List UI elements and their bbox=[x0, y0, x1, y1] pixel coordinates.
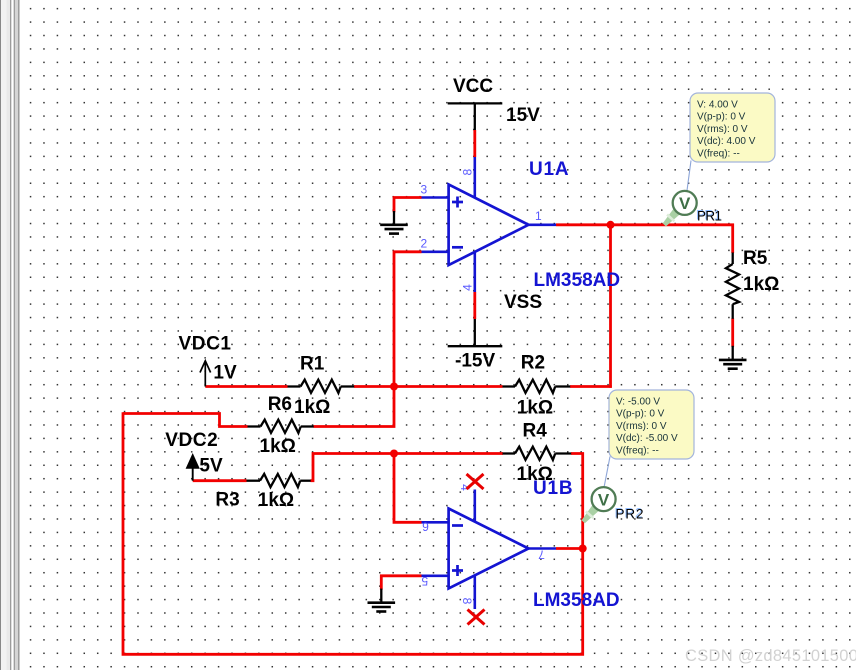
svg-text:1kΩ: 1kΩ bbox=[258, 490, 294, 511]
svg-text:1V: 1V bbox=[213, 363, 237, 384]
svg-text:R1: R1 bbox=[300, 353, 325, 374]
left window edge / scrollbar strip bbox=[0, 0, 19, 670]
node OUT1 junction dot bbox=[607, 221, 615, 229]
wire: U1A pin3 to ground bbox=[394, 198, 422, 213]
svg-text:1kΩ: 1kΩ bbox=[743, 274, 779, 295]
svg-text:4: 4 bbox=[461, 284, 475, 291]
U1B pin 4 stub with X bbox=[458, 474, 484, 522]
U1A pin 1 stub bbox=[529, 209, 557, 225]
U1B pin 6 stub bbox=[422, 520, 449, 534]
resistor R2 bbox=[503, 353, 571, 419]
svg-text:1kΩ: 1kΩ bbox=[260, 436, 296, 457]
probe PR1 leader line bbox=[687, 161, 691, 191]
svg-text:PR1: PR1 bbox=[697, 209, 722, 224]
watermark bbox=[685, 647, 856, 665]
ground (U1B pin5) bbox=[368, 589, 396, 612]
wire: U1A pin2 down to node A bbox=[394, 252, 422, 387]
node B junction dot bbox=[390, 450, 398, 458]
svg-text:1kΩ: 1kΩ bbox=[294, 397, 330, 418]
wire: R5 bottom lead to ground bbox=[731, 318, 734, 347]
probe PR1 bbox=[663, 191, 722, 227]
wire: U1A output pin1 to R5 top bbox=[556, 223, 734, 226]
wire: node B down to U1B pin6 bbox=[394, 452, 422, 522]
U1B pin 5 stub bbox=[421, 574, 448, 588]
source VDC2 5V arrow bbox=[165, 430, 223, 481]
svg-text:3: 3 bbox=[421, 182, 428, 196]
svg-text:V: V bbox=[598, 490, 610, 509]
ground (R5) bbox=[719, 346, 747, 369]
wire: VDC2 to R3 left lead bbox=[193, 479, 247, 482]
wire: R6 left lead to loop top step bbox=[123, 414, 248, 427]
svg-text:LM358AD: LM358AD bbox=[534, 270, 621, 291]
svg-text:VDC2: VDC2 bbox=[165, 430, 218, 451]
source VDC1 1V arrow bbox=[179, 334, 237, 387]
wire: VSS to U1A pin4 bbox=[473, 292, 476, 319]
svg-text:R3: R3 bbox=[215, 490, 239, 511]
wire: big loop left and bottom bbox=[123, 412, 583, 654]
svg-text:V: 4.00 V: V: 4.00 V bbox=[697, 99, 738, 110]
svg-text:V(p-p): 0 V: V(p-p): 0 V bbox=[616, 409, 665, 420]
wire: U1B output pin7 to node C bbox=[556, 547, 584, 550]
svg-text:8: 8 bbox=[460, 598, 474, 605]
wire: R5 top lead bbox=[731, 224, 734, 254]
svg-text:LM358AD: LM358AD bbox=[533, 590, 620, 611]
resistor R6 bbox=[248, 394, 314, 457]
op-amp U1B triangle bbox=[449, 478, 620, 611]
resistor R4 bbox=[503, 421, 572, 486]
svg-text:8: 8 bbox=[461, 169, 475, 176]
resistor R5 bbox=[726, 248, 779, 319]
svg-text:VCC: VCC bbox=[453, 76, 493, 97]
svg-text:5V: 5V bbox=[199, 456, 223, 477]
wire: VDC1 to R1 left lead bbox=[205, 385, 287, 388]
wire: feedback riser x=610.5 bbox=[609, 224, 612, 388]
svg-text:V(rms): 0 V: V(rms): 0 V bbox=[697, 124, 748, 135]
wire: node A down to R6 right lead bbox=[314, 385, 395, 427]
svg-text:V(dc): 4.00 V: V(dc): 4.00 V bbox=[697, 136, 756, 147]
svg-text:-15V: -15V bbox=[455, 351, 495, 372]
svg-text:V(freq): --: V(freq): -- bbox=[616, 446, 659, 457]
svg-text:V: -5.00 V: V: -5.00 V bbox=[616, 396, 660, 407]
probe PR2 leader line bbox=[604, 457, 610, 488]
svg-text:U1A: U1A bbox=[529, 159, 569, 180]
resistor R3 bbox=[215, 474, 310, 511]
svg-text:CSDN @zd845101500: CSDN @zd845101500 bbox=[685, 647, 856, 665]
power symbol VSS bbox=[448, 292, 542, 372]
tooltip PR1 bbox=[690, 93, 775, 162]
U1A pin 3 stub bbox=[421, 182, 449, 197]
wire: VCC to U1A pin8 bbox=[473, 130, 476, 157]
resistor R1 bbox=[288, 353, 355, 417]
svg-text:V(rms): 0 V: V(rms): 0 V bbox=[616, 421, 667, 432]
svg-text:6: 6 bbox=[422, 520, 429, 534]
wire: R4 right lead down to U1B output node bbox=[571, 454, 583, 550]
svg-text:7: 7 bbox=[538, 548, 545, 562]
svg-text:R5: R5 bbox=[743, 248, 768, 269]
svg-text:PR2: PR2 bbox=[616, 507, 644, 522]
node OUT2 junction dot bbox=[579, 545, 587, 553]
svg-text:VSS: VSS bbox=[504, 292, 542, 313]
svg-text:V(p-p): 0 V: V(p-p): 0 V bbox=[697, 112, 746, 123]
wire: U1B pin5 to ground bbox=[381, 576, 421, 590]
svg-text:5: 5 bbox=[421, 574, 428, 588]
svg-text:R2: R2 bbox=[521, 353, 545, 374]
ground (U1A pin3) bbox=[380, 211, 408, 234]
svg-text:1: 1 bbox=[535, 209, 542, 223]
tooltip PR2 bbox=[609, 390, 694, 459]
U1A pin 4 stub bbox=[461, 252, 475, 292]
wire: R1 right lead to node A to R2 left lead bbox=[354, 385, 503, 388]
power symbol VCC bbox=[448, 76, 540, 130]
svg-text:R4: R4 bbox=[523, 421, 548, 442]
U1A pin 2 stub bbox=[421, 237, 449, 252]
U1B pin 8 stub with X bbox=[460, 575, 485, 624]
svg-text:2: 2 bbox=[421, 237, 428, 251]
probe PR2 bbox=[582, 487, 644, 523]
svg-text:1kΩ: 1kΩ bbox=[517, 397, 553, 418]
svg-text:V: V bbox=[679, 194, 691, 213]
wire: R3 right lead up to node B row bbox=[311, 454, 504, 481]
U1B pin 7 stub bbox=[529, 548, 557, 562]
svg-text:V(dc): -5.00 V: V(dc): -5.00 V bbox=[616, 433, 678, 444]
svg-text:15V: 15V bbox=[506, 105, 540, 126]
svg-text:R6: R6 bbox=[268, 394, 292, 415]
svg-text:V(freq): --: V(freq): -- bbox=[697, 149, 740, 160]
node A junction dot bbox=[390, 383, 398, 391]
svg-text:VDC1: VDC1 bbox=[179, 334, 232, 355]
svg-text:U1B: U1B bbox=[533, 478, 573, 499]
op-amp U1A triangle bbox=[449, 159, 620, 291]
U1A pin 8 stub bbox=[461, 157, 475, 198]
wire: R2 right lead to feedback riser bbox=[570, 385, 612, 388]
